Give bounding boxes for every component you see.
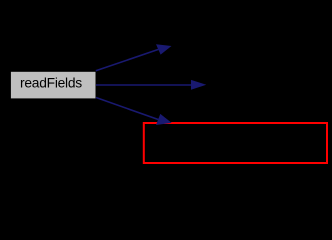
- node readFields (current node, grey box): [10, 71, 96, 99]
- wire edge 1 line (to upper hidden node): [96, 49, 159, 70]
- node truncated (red outlined box): [144, 123, 327, 163]
- wire edge 3 line (to truncated red node): [96, 98, 158, 120]
- edge 2 arrowhead: [191, 80, 206, 90]
- svg-text:readFields: readFields: [20, 75, 82, 90]
- edge 1 arrowhead: [156, 44, 172, 54]
- edge 3 arrowhead: [156, 114, 172, 125]
- wire edge 2 line (to middle hidden node): [96, 84, 192, 86]
